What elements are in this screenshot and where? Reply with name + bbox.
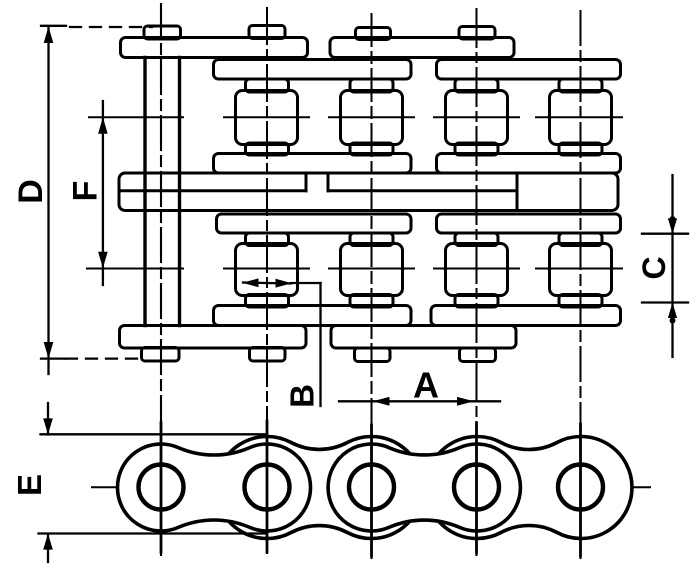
svg-text:E: E bbox=[11, 474, 48, 496]
outer plate bottom 2 bbox=[331, 326, 516, 349]
dimension F line bbox=[102, 101, 104, 285]
D arrow bottom bbox=[44, 342, 54, 359]
E arrow top bbox=[43, 418, 53, 434]
pin centerline 2 bbox=[266, 8, 268, 553]
outer plate top 1 bbox=[121, 38, 308, 58]
pin centerline 1 bbox=[160, 4, 162, 555]
bushings strand 1 bottom bbox=[246, 143, 603, 155]
side view pin verticals (solid over circles) bbox=[161, 421, 581, 556]
svg-text:D: D bbox=[12, 179, 50, 204]
outer link plate 1-2 (side view) bbox=[117, 444, 310, 531]
outer link plate 3-4 (side view) bbox=[328, 444, 520, 531]
pin 4 head top bbox=[459, 27, 495, 40]
rollers strand 1 bbox=[236, 91, 612, 145]
pin 1 head bottom bbox=[142, 348, 180, 362]
middle plate divider c bbox=[516, 173, 519, 211]
inner plate bottom 2 bbox=[431, 306, 621, 326]
B arrow right bbox=[276, 279, 293, 288]
inner plate bottom 1 bbox=[214, 306, 412, 326]
outer plate bottom 1 bbox=[120, 326, 307, 349]
pin 3 head top bbox=[356, 28, 391, 40]
middle plate mid-line left bbox=[119, 189, 306, 192]
D arrow top bbox=[44, 27, 54, 44]
roller row 2 centerline bbox=[87, 268, 622, 270]
inner plate row2 (above middle) 2 bbox=[437, 154, 621, 174]
rollers strand 2 bbox=[236, 244, 612, 296]
svg-text:C: C bbox=[636, 256, 672, 279]
pin hole circle 1 bbox=[139, 465, 184, 510]
bushings strand 2 bottom bbox=[246, 295, 603, 308]
bushings strand 1 top bbox=[246, 79, 603, 92]
C arrow tail dots bbox=[670, 216, 676, 222]
C arrow top bbox=[668, 218, 677, 234]
inner plate row3 (below middle) 1 bbox=[217, 214, 412, 233]
inner plate row2 (above middle) 1 bbox=[214, 154, 412, 174]
inner link plate 2-3 (side view) bbox=[216, 436, 422, 538]
bushings strand 2 top bbox=[246, 233, 603, 246]
svg-text:F: F bbox=[67, 181, 105, 202]
inner link plate 4-5 (side view) bbox=[426, 437, 632, 539]
C arrow bottom bbox=[668, 303, 677, 319]
pin hole circle 5 bbox=[558, 465, 603, 510]
dimension A line bbox=[339, 400, 500, 402]
dimension B arrows at roller bbox=[243, 283, 321, 407]
dimension C line bbox=[642, 175, 688, 357]
inner plate row3 (below middle) 2 bbox=[437, 214, 621, 233]
outer plate top 2 bbox=[330, 38, 514, 58]
middle plate divider a bbox=[305, 173, 308, 191]
pin centerline 3 bbox=[371, 14, 373, 558]
middle plate band outline bbox=[119, 173, 618, 211]
middle plate mid-line right bbox=[328, 189, 514, 192]
pin 2 head top bbox=[249, 26, 285, 39]
middle plate divider b bbox=[327, 173, 330, 191]
A arrow left bbox=[373, 397, 390, 406]
pin 1 body left wall bbox=[143, 58, 146, 326]
pin 3 head bottom bbox=[355, 348, 391, 362]
pin centerline 4 bbox=[476, 9, 478, 555]
pin 4 head bottom bbox=[460, 348, 496, 362]
F arrow top bbox=[98, 117, 108, 134]
F arrow bottom bbox=[98, 252, 108, 269]
svg-text:B: B bbox=[284, 384, 321, 408]
pin 1 head top bbox=[144, 26, 181, 39]
pin hole circle 4 bbox=[454, 465, 499, 510]
pin centerline 5 bbox=[580, 11, 582, 558]
pin hole circle 3 bbox=[349, 465, 394, 510]
dimension D line bbox=[41, 26, 152, 374]
inner plate top 1 bbox=[214, 60, 412, 80]
E arrow bottom bbox=[43, 534, 53, 550]
A arrow right bbox=[457, 397, 474, 406]
pin 2 head bottom bbox=[250, 348, 286, 362]
roller row 1 centerline bbox=[89, 116, 622, 118]
pin 1 body right wall bbox=[178, 58, 181, 326]
dimension E line bbox=[39, 403, 268, 562]
side view horizontal centerline bbox=[92, 486, 650, 488]
inner plate top 2 bbox=[437, 60, 621, 80]
pin hole circle 2 bbox=[245, 465, 290, 510]
svg-text:A: A bbox=[413, 365, 439, 406]
B arrow left bbox=[242, 278, 259, 287]
